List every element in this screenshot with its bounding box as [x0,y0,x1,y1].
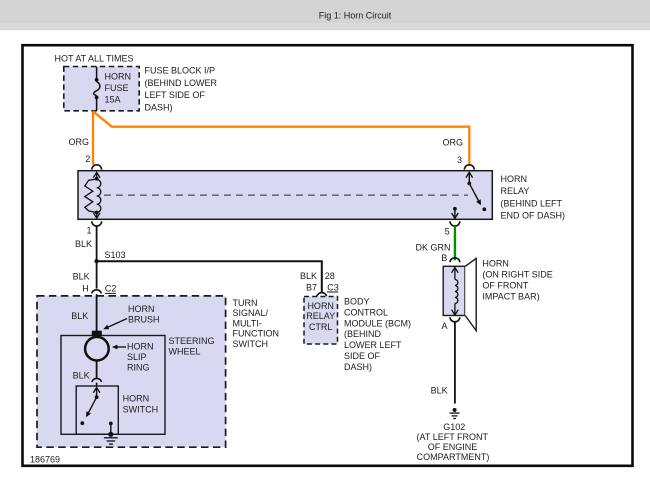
horn flare [465,258,476,330]
horn slip ring (circle) [85,337,109,361]
svg-text:ORG: ORG [442,138,463,148]
pin 2 connector [92,165,102,170]
wire from C2 to horn brush [96,294,98,331]
svg-text:BODY: BODY [344,297,370,307]
relay coil with parallel resistor [85,172,101,218]
svg-text:15A: 15A [105,95,121,105]
svg-text:(ON RIGHT SIDE: (ON RIGHT SIDE [482,270,552,280]
svg-text:BLK: BLK [71,311,88,321]
wire DK GRN pin 5 to horn [454,226,456,260]
pin B connector [450,258,460,263]
horn relay box K1 [78,171,492,220]
turn signal switch box (dashed) [37,296,226,447]
svg-text:HOT AT ALL TIMES: HOT AT ALL TIMES [55,54,134,64]
svg-text:RELAY: RELAY [306,311,335,321]
svg-text:SWITCH: SWITCH [233,339,269,349]
svg-text:C2: C2 [105,283,117,293]
svg-text:5: 5 [445,226,450,236]
svg-text:TURN: TURN [233,298,258,308]
connector C2 [92,290,102,294]
svg-text:3: 3 [457,155,462,165]
fuse F1 HORN FUSE 15A [94,67,100,111]
connector at horn switch [92,378,102,382]
svg-text:FUSE: FUSE [105,83,129,93]
pin A connector [450,317,460,322]
svg-text:HORN: HORN [128,304,155,314]
svg-text:MODULE (BCM): MODULE (BCM) [344,318,411,328]
svg-text:SLIP: SLIP [127,352,147,362]
svg-text:OF FRONT: OF FRONT [482,281,528,291]
svg-text:DASH): DASH) [344,362,372,372]
svg-text:G102: G102 [443,422,465,432]
svg-text:S103: S103 [105,250,126,260]
svg-text:CONTROL: CONTROL [344,307,388,317]
svg-text:HORN: HORN [501,174,528,184]
horn brush (black block) [92,331,102,336]
svg-text:H: H [82,283,89,293]
svg-text:LEFT SIDE OF: LEFT SIDE OF [145,90,206,100]
horn coil [452,268,459,316]
connector C3 [317,293,327,297]
svg-text:DK GRN: DK GRN [415,243,450,253]
svg-text:BLK: BLK [73,370,90,380]
svg-text:LOWER LEFT: LOWER LEFT [344,340,402,350]
svg-text:MULTI-: MULTI- [233,318,262,328]
svg-text:COMPARTMENT): COMPARTMENT) [417,452,490,462]
svg-text:BLK: BLK [431,386,448,396]
pin 3 connector [464,165,474,170]
svg-text:END OF DASH): END OF DASH) [501,211,566,221]
svg-text:(AT LEFT FRONT: (AT LEFT FRONT [417,432,489,442]
svg-text:B: B [441,253,447,263]
svg-text:BLK: BLK [300,271,317,281]
title bar [0,0,650,24]
svg-text:A: A [441,321,447,331]
wire BLK to horn switch [96,361,98,379]
svg-text:C3: C3 [327,282,339,292]
svg-text:ORG: ORG [68,137,89,147]
horn switch box [76,386,118,434]
svg-text:SIGNAL/: SIGNAL/ [233,308,269,318]
svg-text:BLK: BLK [73,271,90,281]
svg-text:HORN: HORN [127,342,154,352]
svg-text:(BEHIND LOWER: (BEHIND LOWER [145,78,218,88]
pin 1 connector [92,221,102,226]
svg-text:Fig 1: Horn Circuit: Fig 1: Horn Circuit [319,11,392,21]
fuse block box (dashed) [64,67,139,111]
wire BLK horizontal to BCM [97,261,322,293]
splice S103 [94,259,98,263]
svg-text:WHEEL: WHEEL [169,347,201,357]
svg-text:BLK: BLK [75,239,92,249]
svg-text:28: 28 [325,271,335,281]
BCM horn relay ctrl box (dashed) [304,297,338,345]
wire ORG branch to pin 3 [93,111,469,165]
svg-text:HORN: HORN [123,394,150,404]
wire BLK to G102 [454,322,456,404]
svg-text:HORN: HORN [105,72,132,82]
ground G102 [453,408,457,412]
svg-text:RELAY: RELAY [501,186,530,196]
svg-text:DASH): DASH) [145,102,173,112]
svg-text:HORN: HORN [307,301,334,311]
svg-text:OF ENGINE: OF ENGINE [428,442,478,452]
svg-text:SIDE OF: SIDE OF [344,351,381,361]
relay switch contact arm [452,172,479,218]
wire ORG vertical to pin 2 [92,111,94,165]
relay internal dashed link line [104,194,468,196]
svg-text:FUSE BLOCK I/P: FUSE BLOCK I/P [145,66,216,76]
svg-text:(BEHIND: (BEHIND [344,329,382,339]
horn switch contacts [89,388,111,434]
horn M1 box [443,266,465,315]
svg-text:1: 1 [86,226,91,236]
pin 5 connector [450,221,460,226]
steering wheel box [61,336,165,435]
svg-text:CTRL: CTRL [309,322,333,332]
svg-text:SWITCH: SWITCH [123,404,159,414]
svg-text:2: 2 [85,154,90,164]
svg-text:HORN: HORN [482,259,509,269]
svg-text:186769: 186769 [30,454,60,464]
ground in horn switch [104,438,118,444]
svg-text:B7: B7 [306,282,317,292]
svg-text:FUNCTION: FUNCTION [233,329,280,339]
svg-text:BRUSH: BRUSH [128,315,160,325]
svg-text:IMPACT BAR): IMPACT BAR) [482,292,539,302]
wire BLK from pin 1 to S103 and C2 [96,226,98,289]
svg-text:STEERING: STEERING [169,336,215,346]
svg-text:(BEHIND LEFT: (BEHIND LEFT [501,198,563,208]
svg-text:RING: RING [127,363,150,373]
